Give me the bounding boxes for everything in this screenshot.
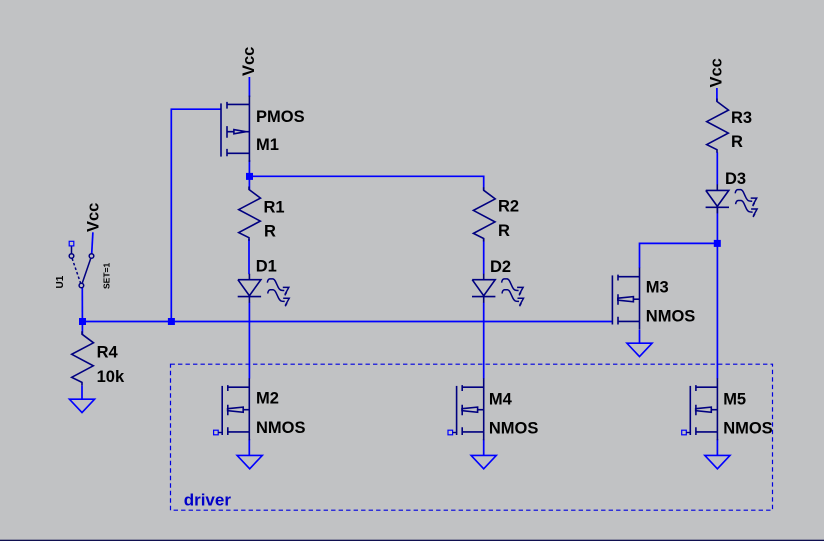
svg-text:NMOS: NMOS — [256, 419, 306, 437]
svg-text:NMOS: NMOS — [723, 420, 773, 438]
svg-text:M5: M5 — [723, 390, 746, 408]
svg-text:M3: M3 — [646, 279, 669, 297]
svg-text:SET=1: SET=1 — [102, 263, 112, 289]
svg-text:Vcc: Vcc — [708, 58, 726, 87]
svg-text:U1: U1 — [55, 275, 66, 288]
svg-text:NMOS: NMOS — [489, 420, 539, 438]
svg-text:R: R — [731, 133, 743, 151]
svg-text:R: R — [264, 222, 276, 240]
svg-text:PMOS: PMOS — [256, 108, 305, 126]
svg-text:D3: D3 — [725, 170, 746, 188]
svg-text:Vcc: Vcc — [85, 203, 103, 232]
svg-text:R3: R3 — [731, 109, 752, 127]
svg-text:R: R — [498, 222, 510, 240]
svg-text:NMOS: NMOS — [646, 308, 696, 326]
svg-text:R4: R4 — [97, 344, 119, 362]
svg-text:10k: 10k — [97, 368, 125, 386]
svg-text:M1: M1 — [256, 136, 279, 154]
svg-text:D2: D2 — [490, 258, 511, 276]
svg-text:D1: D1 — [256, 258, 277, 276]
svg-text:M4: M4 — [489, 391, 513, 409]
svg-text:driver: driver — [184, 491, 232, 510]
svg-text:R1: R1 — [264, 198, 285, 216]
svg-text:R2: R2 — [498, 198, 519, 216]
svg-text:Vcc: Vcc — [240, 47, 258, 76]
svg-text:M2: M2 — [256, 390, 279, 408]
